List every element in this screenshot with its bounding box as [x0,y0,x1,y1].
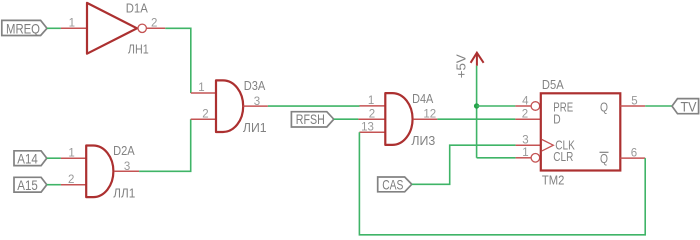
wire MREQ to D1A pin 1 [47,27,61,29]
wire A14 to D2A pin 1 [47,157,61,159]
pin stub D5A pin 1 (CLR) with bubble [516,157,531,159]
svg-text:CAS: CAS [382,176,403,192]
pin stub D1A pin 2 [147,27,166,29]
AND gate D2A [86,146,113,198]
svg-text:3: 3 [522,135,528,147]
pin stub D4A pin 2 [358,118,385,120]
pin stub D4A pin 12 [413,118,437,120]
inverter D1A triangle [87,3,137,54]
pin stub D2A pin 2 [61,184,86,186]
svg-text:ЛН1: ЛН1 [128,41,149,56]
pin stub D5A pin 5 (Q) [620,105,645,107]
svg-text:1: 1 [68,147,74,159]
svg-text:13: 13 [361,122,374,134]
wire +5V to D5A pin 1 (CLR) [477,157,516,159]
pin stub D5A pin 4 (PRE) with bubble [515,105,531,107]
wire D4A output to D5A pin 2 (D) [437,118,515,120]
flip-flop D5A box [541,93,621,170]
svg-text:A15: A15 [17,177,38,193]
flag RFSH [291,112,333,127]
pin stub D5A pin 2 (D) [515,118,540,120]
pin stub D4A pin 1 [360,105,386,107]
flag A14 [14,151,47,166]
svg-text:2: 2 [202,109,208,121]
wire +5V vertical [476,66,478,158]
svg-text:2: 2 [68,174,74,186]
junction [474,103,479,108]
svg-text:2: 2 [522,108,528,120]
svg-text:D5A: D5A [542,77,564,92]
pin stub D1A pin 1 [61,27,87,29]
AND gate D3A [216,80,243,132]
wire D2A output to D3A pin 2 [139,119,191,171]
wire D3A output to D4A pin 1 [268,105,360,107]
AND gate D4A [385,93,412,145]
svg-text:RFSH: RFSH [296,111,325,127]
svg-text:ЛЛ1: ЛЛ1 [113,185,135,200]
flag MREQ [2,20,47,35]
svg-text:ЛИ3: ЛИ3 [411,133,435,148]
pin stub D3A pin 1 [191,92,216,94]
svg-text:D4A: D4A [412,91,433,106]
svg-text:TM2: TM2 [542,173,565,188]
svg-text:D: D [553,112,560,127]
svg-text:D3A: D3A [244,78,266,93]
svg-text:CLR: CLR [553,149,573,164]
pin stub D4A pin 13 [359,131,385,133]
svg-text:ЛИ1: ЛИ1 [243,120,267,135]
wire Qbar to D4A pin 13 [359,132,645,235]
svg-text:6: 6 [631,147,637,159]
bubble CLR [531,154,540,163]
svg-text:1: 1 [198,82,204,94]
flag CAS [378,177,412,192]
svg-text:1: 1 [522,147,528,159]
pin stub D3A pin 3 [243,105,268,107]
svg-text:1: 1 [368,95,374,107]
wire CAS to D5A pin 3 (CLK) [412,145,516,184]
clock triangle [542,140,553,151]
inverter D1A bubble [138,24,146,32]
svg-text:2: 2 [369,109,375,121]
svg-text:Q: Q [600,100,608,115]
wire Q to TV [645,105,672,107]
wire D1A output to D3A pin 1 [165,28,191,93]
svg-text:D2A: D2A [113,143,135,158]
wire RFSH to D4A pin 2 [334,118,359,120]
wire +5V to D5A pin 4 (PRE) [477,105,516,107]
bubble PRE [531,102,540,111]
pin stub D3A pin 2 [191,118,216,120]
svg-text:A14: A14 [17,150,38,166]
svg-text:4: 4 [522,95,529,107]
pin stub D5A pin 3 (CLK) [516,144,541,146]
svg-text:5: 5 [631,95,637,107]
flag TV [672,99,699,114]
svg-text:+5V: +5V [453,54,468,78]
svg-text:Q: Q [600,151,608,166]
flag A15 [14,177,47,192]
svg-text:1: 1 [69,17,75,29]
svg-text:D1A: D1A [126,1,148,16]
svg-text:TV: TV [681,98,698,114]
Qbar overline [600,151,609,153]
wire A15 to D2A pin 2 [47,184,61,186]
pin stub D2A pin 1 [61,157,86,159]
power +5V arrow [471,53,484,66]
pin stub D5A pin 6 (Qbar) [620,157,645,159]
pin stub D2A pin 3 [114,170,139,172]
svg-text:MREQ: MREQ [6,20,40,36]
